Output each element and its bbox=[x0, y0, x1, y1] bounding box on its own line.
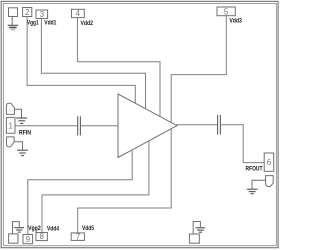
svg-text:Vgg2: Vgg2 bbox=[28, 225, 41, 232]
pad 2 bbox=[23, 8, 32, 17]
pad 5 bbox=[217, 7, 235, 16]
svg-text:9: 9 bbox=[26, 235, 31, 244]
pad 7 bbox=[71, 232, 84, 241]
pad (bond pad above RFIN) bbox=[6, 103, 14, 114]
pad 6 (RFOUT) bbox=[264, 153, 274, 171]
svg-text:Vgg1: Vgg1 bbox=[27, 19, 39, 26]
wire output cap to pad 6 bbox=[220, 125, 264, 163]
wire ground stem bottom-middle bbox=[193, 222, 200, 235]
svg-text:1: 1 bbox=[8, 121, 13, 130]
pad 3 bbox=[36, 10, 48, 19]
capacitor C1 (input DC block) bbox=[78, 116, 81, 135]
ground (below RFOUT) bbox=[247, 189, 258, 194]
wire Vdd5 (pad 7 to amplifier bottom-right) bbox=[78, 129, 172, 233]
svg-text:Vdd1: Vdd1 bbox=[44, 19, 56, 26]
svg-text:3: 3 bbox=[40, 10, 45, 19]
ground (above RFIN) bbox=[16, 118, 27, 123]
svg-text:Vdd5: Vdd5 bbox=[82, 225, 94, 232]
pad 8 bbox=[36, 232, 47, 241]
svg-text:6: 6 bbox=[267, 158, 272, 167]
wire Vgg1 (pad 2 to amplifier top) bbox=[27, 17, 135, 104]
wire Vdd3 (pad 5 to amplifier top-right) bbox=[171, 16, 226, 123]
pad (bond pad below RFOUT) bbox=[266, 176, 274, 187]
wire amplifier output to cap bbox=[177, 124, 218, 126]
wire input cap to amplifier bbox=[80, 125, 118, 127]
wire ground stem bottom-left bbox=[13, 222, 20, 234]
svg-text:RFIN: RFIN bbox=[19, 129, 31, 136]
wire Vdd4 (pad 8 to amplifier bottom) bbox=[42, 141, 149, 232]
svg-text:8: 8 bbox=[39, 232, 44, 241]
ground (below RFIN) bbox=[17, 150, 28, 155]
wire ground stem top-left bbox=[11, 17, 13, 26]
wire bond pad to ground bbox=[14, 109, 21, 117]
svg-text:RFOUT: RFOUT bbox=[246, 165, 264, 172]
op-amp U1 (amplifier triangle) bbox=[118, 94, 177, 158]
pad (ground pad, bottom-middle) bbox=[189, 234, 199, 243]
ground (bottom-middle) bbox=[196, 228, 206, 232]
wire bond pad to ground (lower) bbox=[14, 142, 22, 150]
pad (bond pad below RFIN) bbox=[7, 137, 15, 147]
svg-text:Vdd3: Vdd3 bbox=[229, 18, 242, 25]
pad 4 bbox=[72, 9, 85, 18]
svg-text:7: 7 bbox=[76, 232, 81, 241]
ground (top-left) bbox=[8, 25, 18, 30]
wire bond pad to ground (output) bbox=[252, 180, 266, 189]
pad (ground pad, bottom-left) bbox=[9, 234, 18, 243]
svg-text:5: 5 bbox=[224, 7, 229, 16]
capacitor C2 (output DC block) bbox=[218, 115, 221, 135]
svg-text:Vdd2: Vdd2 bbox=[81, 20, 94, 27]
pad 1 (RFIN) bbox=[6, 117, 15, 133]
wire Vgg2 (pad 9 to amplifier bottom) bbox=[28, 150, 132, 234]
ground (bottom-left) bbox=[14, 228, 24, 232]
pad (ground pad, top-left) bbox=[9, 8, 18, 17]
wire Vdd1 (pad 3 to amplifier top) bbox=[41, 19, 145, 110]
wire Vdd2 (pad 4 to amplifier top) bbox=[77, 18, 160, 117]
wire RFIN to input cap bbox=[15, 125, 78, 127]
svg-text:4: 4 bbox=[76, 9, 81, 18]
pad 9 bbox=[23, 235, 33, 244]
svg-text:2: 2 bbox=[25, 8, 30, 17]
svg-text:Vdd4: Vdd4 bbox=[47, 225, 59, 232]
